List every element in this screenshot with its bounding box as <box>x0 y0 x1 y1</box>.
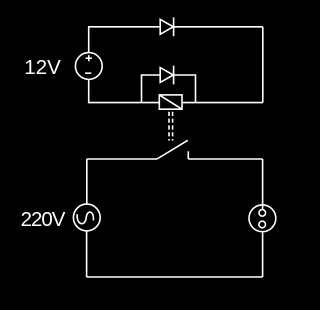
wire left vertical (220V source to switch level) <box>86 159 88 204</box>
wire switch right segment <box>188 158 262 160</box>
wire right vertical (switch to lamp) <box>262 159 264 210</box>
diode D2 (flyback) <box>160 66 173 85</box>
wire left vertical (bottom corner to 220V source) <box>86 231 88 277</box>
wire right vertical (lamp to bottom-right corner) <box>262 232 264 277</box>
svg-text:220V: 220V <box>21 208 66 231</box>
wire switch left segment <box>87 158 157 160</box>
relay coil K <box>159 95 182 109</box>
wire top right segment (D1 cathode to top-right corner) <box>174 26 263 28</box>
wire middle left segment (relay coil to 12V-) <box>89 79 160 102</box>
diode D1 (top) <box>160 17 173 36</box>
wire top left segment (12V+ to diode D1 anode) <box>89 27 161 53</box>
svg-text:12V: 12V <box>24 56 61 79</box>
wire flyback branch right (D2 cathode to node) <box>174 75 196 103</box>
mechanical link (dashed, relay to switch) <box>169 112 173 141</box>
source V1 12V DC <box>75 53 102 80</box>
wire middle right segment (corner to relay coil) <box>182 102 263 104</box>
source V2 220V AC <box>73 204 100 231</box>
lamp L <box>249 205 276 232</box>
switch S fixed contact <box>187 151 189 159</box>
wire flyback branch left (node to D2 anode) <box>142 75 161 103</box>
wire right vertical of 12V loop <box>262 27 264 103</box>
wire bottom segment <box>87 276 263 278</box>
switch S arm <box>157 140 188 159</box>
